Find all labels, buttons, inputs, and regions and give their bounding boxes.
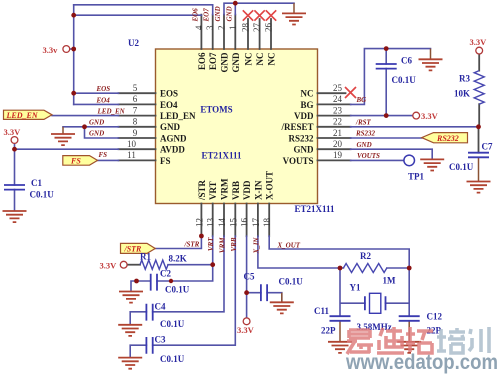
U2 internal part name ETOMS <box>200 105 232 115</box>
svg-text:X-OUT: X-OUT <box>265 171 275 200</box>
wire AVDD <box>15 148 119 150</box>
svg-text:/STR: /STR <box>184 240 200 248</box>
junction C2 right <box>169 279 173 283</box>
svg-text:LED_EN: LED_EN <box>160 111 196 121</box>
svg-text:VRM: VRM <box>220 178 230 200</box>
capacitor C4 <box>146 302 184 330</box>
wire C6 vertical <box>385 49 387 116</box>
svg-text:28: 28 <box>241 23 251 33</box>
wire LED_EN <box>52 115 119 117</box>
svg-text:RS232: RS232 <box>288 133 314 143</box>
svg-text:C2: C2 <box>160 269 171 279</box>
svg-text:2: 2 <box>217 26 227 31</box>
net label GND pin9 <box>89 130 104 138</box>
svg-text:AVDD: AVDD <box>160 145 185 155</box>
svg-text:C5: C5 <box>244 272 255 282</box>
svg-text:LED_EN: LED_EN <box>6 111 39 120</box>
svg-text:3.3V: 3.3V <box>421 111 439 121</box>
svg-text:EOS: EOS <box>96 85 111 93</box>
svg-text:9: 9 <box>133 128 138 138</box>
port flag LED_EN <box>4 110 53 120</box>
net label EO4 <box>96 96 111 104</box>
svg-text:16: 16 <box>240 218 250 228</box>
svg-text:3.3V: 3.3V <box>100 261 118 271</box>
power port 3.3V below pin16 <box>237 318 255 335</box>
capacitor C2 <box>151 269 190 295</box>
wire left GND ground stem <box>62 127 64 134</box>
junction AVDD/C1 <box>12 147 17 152</box>
svg-text:BG: BG <box>356 96 367 104</box>
svg-text:1M: 1M <box>383 276 397 286</box>
svg-text:19: 19 <box>333 150 343 160</box>
svg-text:25: 25 <box>333 83 343 93</box>
svg-text:R3: R3 <box>459 74 470 84</box>
svg-text:3.3V: 3.3V <box>4 127 22 137</box>
svg-text:VRM: VRM <box>219 237 227 253</box>
wire EO4 <box>74 103 119 105</box>
wire GND pin9 <box>85 127 119 138</box>
svg-text:LED_EN: LED_EN <box>97 108 126 116</box>
wire C5 ground stem <box>281 293 283 302</box>
svg-text:C0.1U: C0.1U <box>449 162 474 172</box>
wire 3.3v tap top-left <box>70 48 74 50</box>
svg-text:10K: 10K <box>454 89 470 99</box>
svg-text:/RESET: /RESET <box>280 122 313 132</box>
svg-text:24: 24 <box>333 94 343 104</box>
ground below C2 <box>119 292 143 303</box>
wire GND pin8 <box>63 126 119 128</box>
net label /STR <box>184 240 200 248</box>
svg-text:R1: R1 <box>140 252 151 262</box>
svg-text:X_IN: X_IN <box>252 237 260 255</box>
wire FS <box>98 159 119 161</box>
svg-text:X_OUT: X_OUT <box>277 241 301 249</box>
capacitor C3 <box>146 335 184 365</box>
wire GND pins1-2 to top ground <box>224 3 294 14</box>
junction GND pins8-9 <box>82 124 87 129</box>
wire EO7 top <box>74 5 213 15</box>
U2 bottom pin numbers 12-18 <box>194 218 272 228</box>
U2 internal part name ET21X111 <box>201 151 242 161</box>
svg-text:AGND: AGND <box>160 133 187 143</box>
net label EO7 rotated <box>203 8 211 23</box>
svg-text:RS232: RS232 <box>436 134 459 143</box>
junction R2 right node <box>407 266 412 271</box>
wire C7 top lead <box>478 127 480 153</box>
ground right of TP1 <box>420 159 444 170</box>
resistor R1 <box>127 252 187 270</box>
resistor R3 <box>454 54 484 127</box>
svg-text:C6: C6 <box>401 56 412 66</box>
wire crystal right branch <box>386 268 410 316</box>
no-connect X pin 27 <box>254 10 264 20</box>
svg-text:23: 23 <box>333 105 343 115</box>
wire GND pin20 to ground <box>351 149 433 159</box>
svg-text:X-IN: X-IN <box>253 180 263 200</box>
junction C2 left <box>134 279 139 284</box>
svg-text:C0.1U: C0.1U <box>279 277 304 287</box>
power port 3.3V at R1 <box>100 261 128 271</box>
wire BG to C6 net <box>351 49 431 105</box>
ground below C5 <box>270 302 294 313</box>
svg-text:VRB: VRB <box>230 237 238 251</box>
ground for GND pins 8-9 <box>51 134 75 145</box>
svg-text:GND: GND <box>231 52 241 73</box>
svg-text:22: 22 <box>333 117 342 127</box>
capacitor C1 <box>4 178 54 200</box>
svg-text:20: 20 <box>333 139 343 149</box>
power port 3.3V above C1 <box>4 127 22 143</box>
svg-text:1: 1 <box>228 26 238 31</box>
capacitor C11 <box>314 306 351 336</box>
svg-text:C1: C1 <box>31 178 42 188</box>
junction R3/C7//RESET <box>476 124 481 129</box>
wire VRM to C4 <box>153 236 224 312</box>
svg-text:15: 15 <box>228 218 238 228</box>
wire crystal left branch <box>340 268 365 316</box>
svg-text:VRB: VRB <box>231 181 241 200</box>
wire EO6 <box>74 14 202 16</box>
wire RS232 to port <box>351 137 422 139</box>
svg-text:C12: C12 <box>427 312 443 322</box>
svg-text:C3: C3 <box>155 335 166 345</box>
svg-text:VDD: VDD <box>242 180 252 200</box>
net label GND pin20 <box>357 141 372 149</box>
svg-text:NC: NC <box>267 53 277 66</box>
svg-text:10: 10 <box>127 139 137 149</box>
U2 reference designator <box>128 38 139 48</box>
crystal Y1 <box>350 283 392 333</box>
ground below C12 <box>397 342 421 353</box>
svg-text:GND: GND <box>89 130 104 138</box>
ground right of C6 <box>419 59 443 70</box>
junction pin12 /STR <box>199 234 204 239</box>
net label GND pin2 rotated <box>214 6 222 21</box>
resistor R2 <box>343 251 396 286</box>
wire C1 stem <box>14 143 16 210</box>
net label /RST <box>355 118 372 126</box>
svg-text:C11: C11 <box>314 306 330 316</box>
ground below C4 <box>118 325 142 336</box>
U2 bottom pin names <box>197 171 275 201</box>
junction 3.3v tap <box>71 47 76 52</box>
wire X_IN to crystal node <box>258 236 340 268</box>
net label EOS <box>96 85 111 93</box>
svg-text:17: 17 <box>251 218 261 228</box>
svg-text:3: 3 <box>205 25 215 30</box>
port flag /STR <box>121 243 156 253</box>
net label VRB rotated <box>230 237 238 251</box>
svg-text:22P: 22P <box>321 326 336 336</box>
power port 3.3V on VDD <box>413 111 439 121</box>
capacitor C7 <box>449 142 493 173</box>
svg-text:GND: GND <box>294 145 315 155</box>
wire VDD to 3.3V <box>351 115 413 117</box>
svg-text:C0.1U: C0.1U <box>160 354 185 364</box>
svg-text:GND: GND <box>220 52 230 73</box>
svg-text:VRT: VRT <box>207 237 215 251</box>
wire /STR port to pin12 <box>155 236 201 249</box>
svg-text:NC: NC <box>255 53 265 66</box>
wire VOUTS to TP1 <box>351 159 404 161</box>
watermark chinese characters yi di tuo <box>347 327 489 354</box>
junction top-left bus/EO6 <box>71 13 76 18</box>
ground top (pins 1-2) <box>282 13 306 24</box>
svg-text:11: 11 <box>127 150 136 160</box>
wire C12 ground stem <box>408 321 410 342</box>
net label X_OUT <box>277 241 301 249</box>
watermark www.edatop.com <box>345 351 498 374</box>
svg-text:ETOMS: ETOMS <box>200 105 232 115</box>
svg-text:TP1: TP1 <box>408 172 425 182</box>
svg-text:6: 6 <box>133 94 138 104</box>
svg-text:www.edatop.com: www.edatop.com <box>345 351 498 374</box>
svg-text:FS: FS <box>99 151 108 159</box>
IC U2 body <box>156 49 318 204</box>
svg-text:VRT: VRT <box>208 181 218 200</box>
net label X_IN rotated <box>252 237 260 255</box>
wire C11 ground stem <box>339 321 341 342</box>
junction C6 bottom on VDD <box>384 113 389 118</box>
svg-text:/STR: /STR <box>197 179 207 201</box>
junction VDD/C5 <box>244 290 249 295</box>
U2 left pin names <box>160 89 196 166</box>
port flag RS232 <box>422 133 468 143</box>
wire C3 left to ground <box>130 345 146 356</box>
wire left vertical bus <box>73 5 75 105</box>
wire top ground stem <box>293 3 295 13</box>
capacitor C12 <box>399 312 443 336</box>
svg-text:NC: NC <box>244 53 254 66</box>
svg-text:GND: GND <box>357 141 372 149</box>
svg-text:RS232: RS232 <box>355 130 376 138</box>
net label LED_EN <box>97 108 126 116</box>
svg-text:/RST: /RST <box>355 118 372 126</box>
junction R2 left node <box>338 266 343 271</box>
svg-text:EO6: EO6 <box>197 52 207 70</box>
svg-text:R2: R2 <box>360 251 371 261</box>
junction EOS tap <box>71 91 76 96</box>
wire /RESET to R3/C7 <box>351 126 479 128</box>
U2 bottom pin stubs 12-18 <box>201 204 269 237</box>
svg-text:13: 13 <box>206 218 216 228</box>
port flag FS <box>63 156 98 166</box>
ground below C1 <box>3 211 27 222</box>
U2 top pin numbers 4,3,2,1,28,27,26 <box>194 23 274 33</box>
wire EOS <box>74 92 119 94</box>
U2 right pin names <box>280 89 314 166</box>
junction GND pin1 <box>233 1 238 6</box>
no-connect X pin 28 <box>243 10 253 20</box>
net label RS232 <box>355 130 376 138</box>
svg-text:FS: FS <box>70 157 81 166</box>
U2 left pin numbers 5-11 <box>127 83 138 160</box>
svg-text:C0.1U: C0.1U <box>30 190 55 200</box>
net label GND pin1 rotated <box>225 6 233 21</box>
svg-text:8.2K: 8.2K <box>169 254 187 264</box>
U2 top pin stubs 4,3,2,1,28,27,26 <box>201 15 271 49</box>
power port 3.3V above R3 <box>470 37 488 54</box>
net label BG <box>356 96 367 104</box>
svg-text:EO6: EO6 <box>191 8 199 23</box>
junction VRT/R1/C2 <box>210 262 215 267</box>
svg-text:NC: NC <box>301 89 314 99</box>
ground below C7 <box>467 182 491 193</box>
svg-text:C7: C7 <box>482 142 493 152</box>
svg-text:4: 4 <box>194 25 204 30</box>
svg-text:8: 8 <box>133 117 138 127</box>
svg-text:C0.1U: C0.1U <box>392 75 417 85</box>
no-connect X pin 25 <box>345 87 356 98</box>
svg-text:GND: GND <box>160 122 181 132</box>
svg-text:EO4: EO4 <box>160 100 178 110</box>
net label VRT rotated <box>207 237 215 251</box>
svg-text:18: 18 <box>262 218 272 228</box>
wire VDD pin16 to 3.3V <box>246 236 248 318</box>
wire X_OUT to crystal node <box>269 236 409 268</box>
svg-text:26: 26 <box>264 23 274 33</box>
wire VRB to C3 <box>153 236 236 345</box>
svg-text:GND: GND <box>225 6 233 21</box>
svg-text:14: 14 <box>217 218 227 228</box>
capacitor C5 <box>244 272 304 302</box>
U2 left pin stubs 5-11 <box>119 93 156 160</box>
wire R1 right to VRT <box>168 264 213 266</box>
ground below C3 <box>118 358 142 369</box>
svg-text:C4: C4 <box>155 302 166 312</box>
wire C7 ground stem <box>478 157 480 181</box>
net label VOUTS <box>357 152 380 160</box>
svg-text:VDD: VDD <box>294 111 314 121</box>
svg-text:U2: U2 <box>128 38 139 48</box>
ground below C11 <box>328 342 352 353</box>
U2 right pin numbers 25-19 <box>333 83 343 160</box>
svg-text:C0.1U: C0.1U <box>165 285 190 295</box>
svg-text:EOS: EOS <box>160 89 178 99</box>
svg-text:3.3v: 3.3v <box>43 45 59 55</box>
svg-text:BG: BG <box>300 100 313 110</box>
svg-text:3.3V: 3.3V <box>470 37 488 47</box>
U2 top pin names <box>197 52 277 73</box>
capacitor C6 <box>376 56 417 86</box>
wire C6 ground stem <box>430 49 432 59</box>
wire VRT node <box>157 236 213 281</box>
svg-text:C0.1U: C0.1U <box>160 319 185 329</box>
svg-text:GND: GND <box>89 118 104 126</box>
no-connect X pin 26 <box>266 10 276 20</box>
net label FS <box>99 151 108 159</box>
svg-text:27: 27 <box>252 23 262 33</box>
wire C4 left to ground <box>130 312 146 324</box>
junction C6 top <box>384 46 389 51</box>
svg-text:EO7: EO7 <box>208 52 218 70</box>
svg-text:VOUTS: VOUTS <box>357 152 380 160</box>
wire C2 left to ground <box>131 281 151 291</box>
U2 part type label ET21X111 below chip <box>295 204 336 214</box>
net label VRM rotated <box>219 237 227 253</box>
wire C5 leads <box>247 293 282 302</box>
U2 right pin stubs 25-19 <box>318 93 351 160</box>
svg-text:ET21X111: ET21X111 <box>295 204 336 214</box>
wire R2 leads <box>340 267 409 269</box>
svg-text:FS: FS <box>160 156 171 166</box>
svg-text:7: 7 <box>133 105 138 115</box>
svg-text:GND: GND <box>214 6 222 21</box>
test point TP1 <box>404 155 425 181</box>
svg-text:3.3V: 3.3V <box>237 325 255 335</box>
svg-text:VOUTS: VOUTS <box>283 156 314 166</box>
svg-text:EO4: EO4 <box>96 96 111 104</box>
power port 3.3v top-left <box>43 45 70 55</box>
net label GND pin8 <box>89 118 104 126</box>
svg-text:Y1: Y1 <box>350 283 361 293</box>
svg-text:5: 5 <box>133 83 138 93</box>
svg-text:21: 21 <box>333 128 342 138</box>
net label EO6 rotated <box>191 8 199 23</box>
svg-text:EO7: EO7 <box>203 8 211 23</box>
svg-text:ET21X111: ET21X111 <box>201 151 242 161</box>
svg-text:12: 12 <box>194 218 204 227</box>
